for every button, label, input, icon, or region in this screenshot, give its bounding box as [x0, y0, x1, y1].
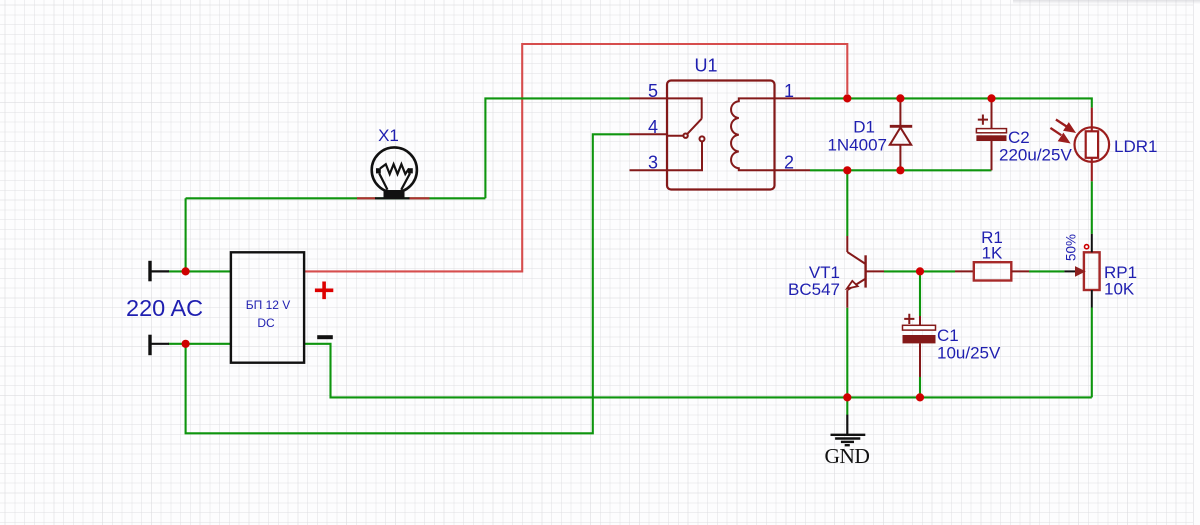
- junction: ground rail at C1: [916, 393, 924, 401]
- relay U1 pin 3 stub: [630, 169, 668, 171]
- junction: ground rail at GND: [843, 393, 851, 401]
- RP1 wiper arrow: [1076, 267, 1085, 275]
- wire green: top AC terminal to PSU input: [168, 270, 231, 272]
- wire green: bottom AC terminal to PSU input: [168, 343, 231, 345]
- svg-text:BC547: BC547: [788, 280, 840, 299]
- diode D1: [890, 98, 912, 170]
- junction: base node at C1 branch: [916, 267, 924, 275]
- power supply unit БП 12V DC box: [231, 252, 304, 362]
- svg-text:1K: 1K: [982, 244, 1003, 263]
- svg-text:2: 2: [784, 153, 794, 173]
- svg-text:1: 1: [784, 81, 794, 101]
- RP1 bottom pin: [1091, 290, 1093, 308]
- wire green: R1 to RP1 wiper: [1029, 270, 1064, 272]
- ground wire stub: [846, 397, 848, 415]
- relay U1 switch contact: [667, 98, 705, 170]
- svg-text:4: 4: [648, 117, 658, 137]
- potentiometer RP1 body: [1084, 252, 1100, 290]
- svg-text:220 AC: 220 AC: [126, 295, 203, 321]
- lamp X1 bulb envelope: [372, 147, 417, 192]
- wire green: C1 bottom to ground rail: [919, 377, 921, 397]
- ground symbol: [831, 415, 866, 446]
- relay U1 pin 4 stub: [630, 133, 668, 135]
- wire green: RP1 bottom to ground rail: [1091, 308, 1093, 398]
- svg-text:X1: X1: [378, 126, 399, 145]
- junction: pin2 rail at collector branch: [843, 166, 851, 174]
- junction: bottom AC terminal node: [182, 340, 190, 348]
- svg-text:3: 3: [648, 153, 658, 173]
- lamp X1 pin stub left: [357, 197, 376, 199]
- relay U1 pin 5 stub: [630, 97, 668, 99]
- svg-text:5: 5: [648, 81, 658, 101]
- relay U1 body: [667, 81, 775, 190]
- svg-text:1N4007: 1N4007: [827, 136, 887, 155]
- plus output mark: [315, 282, 333, 300]
- junction: +12V rail at C2: [987, 94, 995, 102]
- lamp X1 filament support funnel: [379, 173, 410, 189]
- svg-text:10u/25V: 10u/25V: [937, 344, 1001, 363]
- wire green: base node down to C1: [919, 271, 921, 316]
- terminal bottom 220AC: [150, 335, 169, 356]
- junction: top AC terminal node: [182, 267, 190, 275]
- junction: pin2 rail at D1 anode: [896, 166, 904, 174]
- wire green: relay pin 4 left, down and across to bottom AC terminal: [186, 134, 630, 433]
- lamp X1 filament nub right: [408, 168, 413, 173]
- wire green: lamp row horizontal to X1: [186, 197, 486, 199]
- wire green: pin2 rail down to VT1 collector: [846, 170, 848, 236]
- resistor R1 right pin: [1011, 270, 1029, 272]
- svg-text:БП 12 V: БП 12 V: [246, 298, 291, 312]
- lamp X1 filament zigzag: [380, 164, 409, 174]
- wire green: LDR1 bottom to RP1 top: [1091, 181, 1093, 234]
- LDR1 light arrows: [1050, 120, 1073, 142]
- svg-text:220u/25V: 220u/25V: [999, 146, 1072, 165]
- RP1 pin-1 marker circle: [1085, 245, 1089, 249]
- lamp X1 filament nub left: [376, 168, 381, 173]
- wire green: relay pin 2 rail to C2: [810, 169, 992, 171]
- RP1 top pin: [1091, 234, 1093, 252]
- minus output mark: [317, 335, 333, 339]
- resistor R1 left pin: [955, 270, 974, 272]
- svg-text:10K: 10K: [1104, 280, 1135, 299]
- lamp X1 pin stub right: [409, 197, 430, 199]
- lamp X1 base: [384, 190, 405, 199]
- photoresistor LDR1: [1075, 108, 1110, 182]
- resistor R1 body: [974, 262, 1012, 280]
- lamp X1 lead bar: [375, 197, 410, 199]
- relay U1 pin 2 stub: [775, 169, 811, 171]
- relay U1 coil: [731, 98, 774, 170]
- junction: +12V rail at relay pin 1: [843, 94, 851, 102]
- terminal top 220AC: [150, 261, 169, 282]
- RP1 wiper pin: [1064, 270, 1076, 272]
- wire red: PSU + output to relay contact net (right, up, over, down): [304, 44, 847, 271]
- svg-text:DC: DC: [257, 316, 275, 330]
- svg-text:LDR1: LDR1: [1114, 137, 1157, 156]
- svg-text:GND: GND: [824, 444, 870, 468]
- right edge white strip: [1193, 0, 1200, 525]
- wire green: relay pin 1 to top supply rail and down to LDR1: [810, 98, 1092, 107]
- svg-text:50%: 50%: [1064, 234, 1079, 261]
- transistor VT1: [847, 236, 884, 308]
- wire green: VT1 emitter down to ground rail: [846, 308, 848, 398]
- wire green: VT1 base to R1: [884, 270, 955, 272]
- svg-text:C2: C2: [1008, 128, 1030, 147]
- wire green: PSU minus output down to ground rail: [304, 344, 1092, 398]
- wire green: from lamp row up and right to relay pin 5: [485, 98, 629, 198]
- wire green: vertical from top AC terminal up to lamp row: [185, 198, 187, 271]
- svg-text:C1: C1: [937, 326, 959, 345]
- junction: +12V rail at D1 cathode: [896, 94, 904, 102]
- svg-text:U1: U1: [694, 56, 717, 76]
- capacitor C1: [903, 314, 936, 377]
- svg-text:D1: D1: [853, 118, 875, 137]
- relay U1 pin 1 stub: [775, 97, 811, 99]
- capacitor C2: [976, 98, 1006, 170]
